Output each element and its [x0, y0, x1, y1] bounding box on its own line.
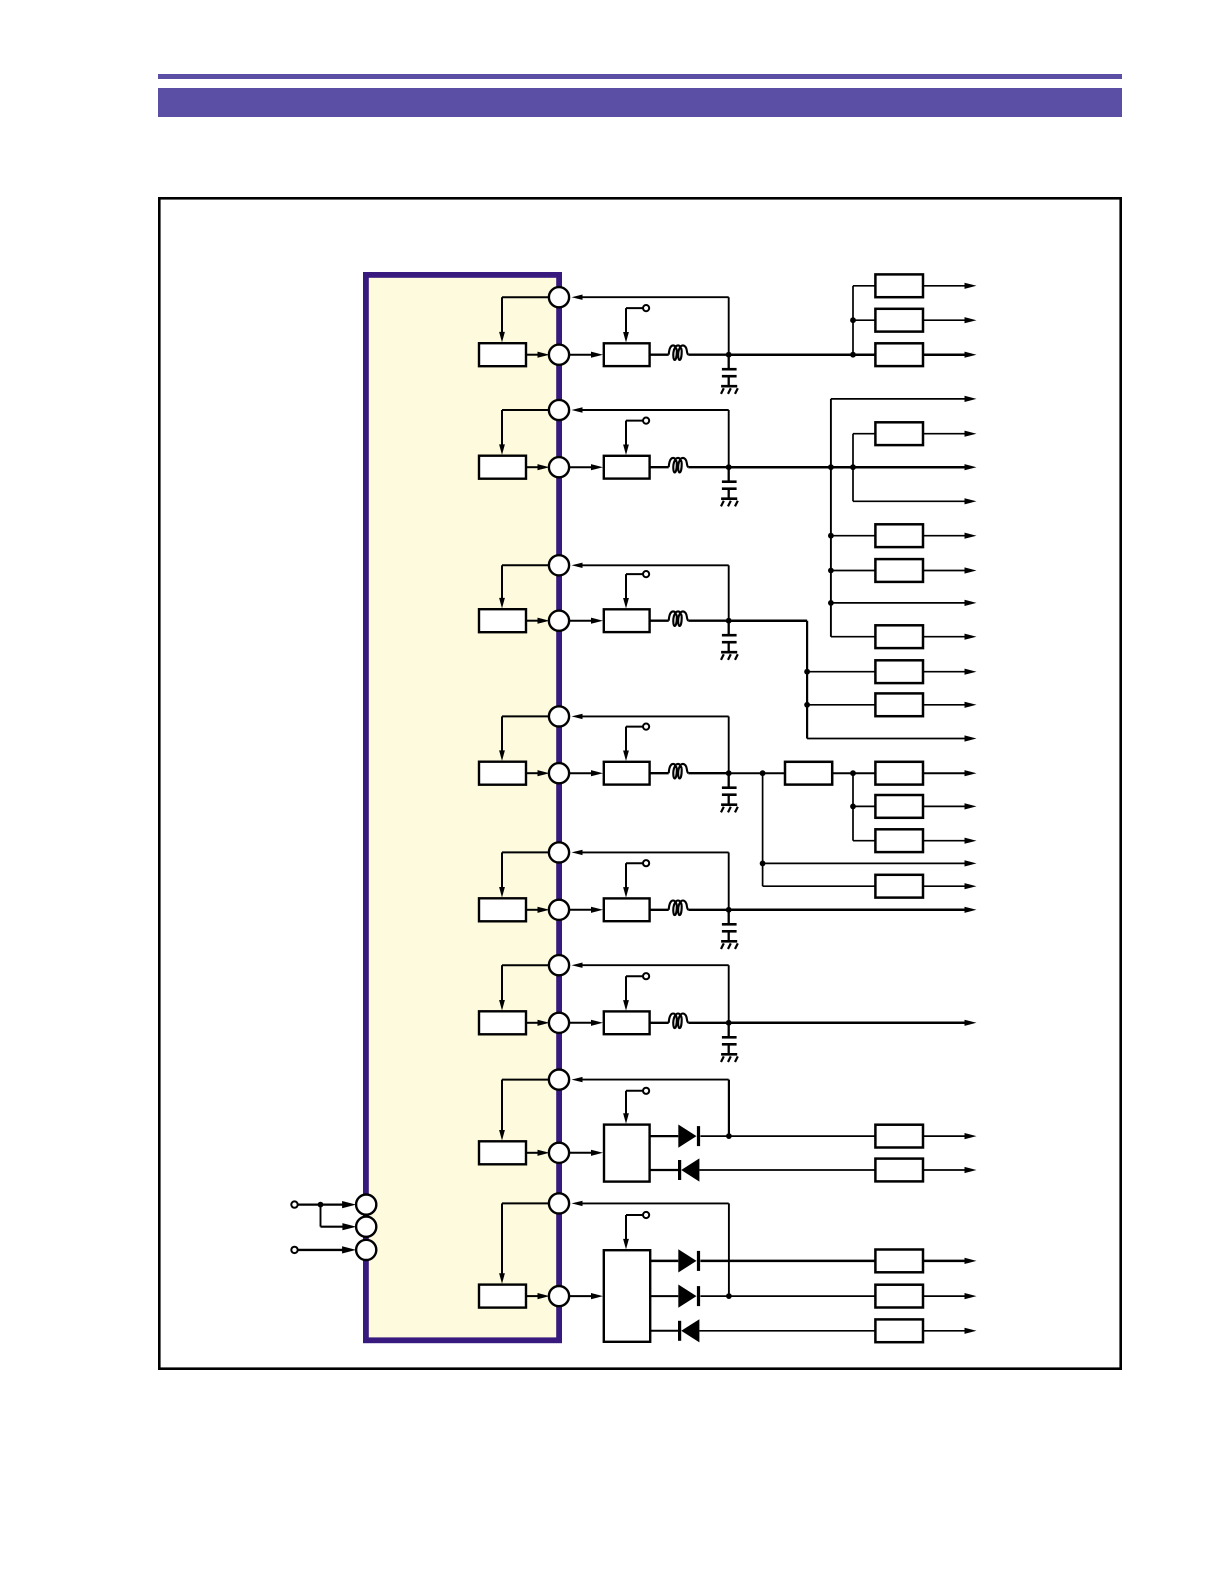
- wire: ch4 output rail: [729, 772, 785, 774]
- wire: ch2 output pin to external block: [570, 466, 593, 468]
- wire: ch1 load branch A: [853, 285, 875, 287]
- wire: ch2 load branch G: [831, 602, 965, 604]
- wire: ch1 inductor to output node: [688, 354, 728, 356]
- wire: ch1 internal feedback routing: [502, 296, 550, 298]
- output arrow: ch2 load G: [965, 600, 977, 606]
- output arrow: ch2 load F: [923, 570, 965, 572]
- wire: ch7 diode branch A: [650, 1135, 679, 1137]
- driver block Q5: [604, 898, 650, 921]
- pin: ch8 feedback input: [549, 1193, 569, 1213]
- inductor L6: [669, 1013, 689, 1028]
- ground: [728, 642, 730, 652]
- pin: ch8 regulator output: [549, 1286, 569, 1306]
- wire: ch6 block output to pin: [526, 1022, 539, 1024]
- output arrow: ch1 load C: [923, 353, 965, 356]
- wire: ch3 block output to pin: [526, 620, 539, 622]
- output arrow: ch2 load H: [923, 636, 965, 638]
- wire: ch1 output pin to external block: [570, 354, 593, 356]
- wire: ch4 branch riser: [852, 773, 854, 841]
- pin: control input B: [356, 1217, 376, 1237]
- node: ch2 branch junction: [850, 464, 856, 470]
- node: ch4 output junction: [726, 770, 732, 776]
- output arrow: ch1 load B: [923, 319, 965, 321]
- load resistor block K8b: [875, 1285, 923, 1308]
- wire: ch7 output pin to external block: [570, 1152, 593, 1154]
- wire: ch2 load branch H (bus end): [831, 636, 876, 638]
- wire: ch4 driver to inductor: [650, 772, 669, 774]
- pin: ch3 feedback input: [549, 555, 569, 575]
- wire: input 2 line: [298, 1249, 345, 1251]
- load resistor block K1a: [875, 274, 923, 297]
- pin: ch3 regulator output: [549, 611, 569, 631]
- wire: input split to pin B: [320, 1205, 322, 1227]
- diode D7b: [678, 1160, 681, 1180]
- pin: control input C: [356, 1240, 376, 1260]
- internal regulator block U1D: [479, 762, 526, 785]
- output arrow: ch3 load A: [923, 671, 965, 673]
- wire: ch5 driver to inductor: [650, 909, 669, 911]
- internal regulator block U1F: [479, 1011, 526, 1034]
- node: ch4 tap junction: [760, 770, 766, 776]
- capacitor C6: [728, 1023, 730, 1038]
- capacitor C3: [728, 621, 730, 636]
- capacitor C1: [728, 355, 730, 370]
- load resistor block K2e: [875, 524, 923, 547]
- series resistor block R4: [785, 762, 832, 785]
- wire: ch8 after diode A: [700, 1260, 875, 1263]
- input terminal J1: [291, 1201, 297, 1207]
- pin: ch4 feedback input: [549, 706, 569, 726]
- wire: ch3 load branch A: [807, 671, 875, 673]
- wire: ch1 driver to inductor: [650, 354, 669, 356]
- load resistor block K2f: [875, 559, 923, 582]
- wire: ch8 block output to pin: [526, 1295, 539, 1297]
- pin: ch1 regulator output: [549, 345, 569, 365]
- capacitor C5: [728, 910, 730, 925]
- wire: ch5 block output to pin: [526, 909, 539, 911]
- ground: [728, 489, 730, 499]
- node: ch2 bus tap G: [828, 600, 834, 606]
- pin: ch2 regulator output: [549, 457, 569, 477]
- wire: ch2 load branch F: [831, 570, 876, 572]
- capacitor C4: [728, 773, 730, 788]
- node: ch7 feedback junction: [726, 1133, 732, 1139]
- IC block U1 (shaded): [366, 275, 559, 1340]
- diode D8a: [678, 1249, 696, 1272]
- switch: ch4 enable control SW4: [625, 727, 627, 753]
- wire: ch2 load branch B: [853, 433, 875, 435]
- node: ch6 output junction: [726, 1020, 732, 1026]
- wire: ch5 feedback vertical: [728, 852, 730, 909]
- wire: ch3 inductor to output node: [688, 620, 728, 622]
- load resistor block K4e: [875, 875, 923, 898]
- pin: control input A: [356, 1195, 376, 1215]
- inductor L5: [669, 900, 689, 915]
- wire: ch2 output rail: [729, 466, 965, 469]
- wire: ch1 output rail to load branches: [729, 353, 876, 356]
- node: ch3 bus tap B: [804, 702, 810, 708]
- output arrow: ch2 load D: [965, 498, 977, 504]
- wire: ch2 load branch E: [831, 535, 876, 537]
- node: ch2 bus tap F: [828, 568, 834, 574]
- output arrow: ch7 load B: [923, 1169, 965, 1171]
- diode D8b: [678, 1285, 696, 1308]
- wire: ch4 after series block: [832, 772, 875, 774]
- wire: ch4 output pin to external block: [570, 772, 593, 774]
- node: ch3 bus tap A: [804, 669, 810, 675]
- output arrow: ch3 load C: [965, 735, 977, 741]
- wire: ch1 block output to pin: [526, 354, 539, 356]
- switch: ch5 enable control SW5: [625, 863, 627, 889]
- output arrow: ch2 load C (main): [965, 464, 977, 470]
- wire: ch2 distribution bus: [830, 399, 832, 637]
- node: ch4 branch tap: [850, 804, 856, 810]
- wire: ch4 inductor to output node: [688, 772, 728, 774]
- node: ch1 output junction: [726, 352, 732, 358]
- inductor L2: [669, 458, 689, 473]
- arrow: into pin B: [342, 1223, 356, 1230]
- wire: ch5 internal feedback routing: [502, 851, 550, 853]
- node: ch1 branch tap: [850, 317, 856, 323]
- wire: ch7 feedback vertical: [728, 1080, 730, 1137]
- wire: ch2 inductor to output node: [688, 466, 728, 468]
- switch: ch3 enable control SW3: [625, 574, 627, 600]
- output arrow: ch7 load A: [923, 1135, 965, 1137]
- wire: ch1 load branch B: [853, 319, 875, 321]
- ground: [728, 1044, 730, 1054]
- driver block Q2: [604, 456, 650, 479]
- output arrow: ch8 load B: [923, 1295, 965, 1297]
- wire: ch7 block output to pin: [526, 1152, 539, 1154]
- wire: ch2 feedback sense line: [572, 407, 583, 412]
- switch: ch2 enable control SW2: [625, 421, 627, 447]
- wire: ch3 internal feedback routing: [502, 564, 550, 566]
- wire: ch2 block output to pin: [526, 466, 539, 468]
- load resistor block K4c: [875, 829, 923, 852]
- wire: ch5 feedback sense line: [572, 850, 583, 855]
- ground: [728, 795, 730, 805]
- inductor L1: [669, 345, 689, 360]
- driver block Q6: [604, 1011, 650, 1034]
- wire: ch8 feedback vertical: [728, 1203, 730, 1296]
- node: input split junction: [318, 1202, 324, 1208]
- wire: ch3 output rail: [729, 619, 807, 622]
- wire: ch7 diode branch B: [650, 1169, 678, 1171]
- inductor L3: [669, 611, 689, 626]
- wire: ch8 diode branch C: [650, 1330, 678, 1332]
- wire: ch4 feedback sense line: [572, 714, 583, 719]
- load resistor block K8c: [875, 1319, 923, 1342]
- pin: ch7 feedback input: [549, 1070, 569, 1090]
- load resistor block K7a: [875, 1125, 923, 1148]
- output arrow: ch2 load B: [923, 433, 965, 435]
- diode D8c: [678, 1321, 681, 1341]
- wire: ch4 left riser: [762, 773, 764, 886]
- wire: ch3 feedback sense line: [572, 563, 583, 568]
- driver block Q4: [604, 762, 650, 785]
- node: ch8 feedback junction: [726, 1293, 732, 1299]
- wire: ch7 after diode B: [699, 1169, 875, 1171]
- wire: ch8 internal feedback routing: [502, 1202, 550, 1204]
- output arrow: ch4 load E: [923, 885, 965, 887]
- wire: ch5 output rail: [729, 909, 965, 912]
- wire: ch4 internal feedback routing: [502, 715, 550, 717]
- output arrow: ch4 load A: [923, 772, 965, 774]
- wire: ch4 block output to pin: [526, 772, 539, 774]
- output arrow: ch8 load A: [923, 1260, 965, 1263]
- pin: ch2 feedback input: [549, 400, 569, 420]
- internal regulator block U1A: [479, 343, 526, 366]
- node: ch4 left tap: [760, 861, 766, 867]
- wire: ch2 feedback vertical: [728, 410, 730, 467]
- node: ch2 output junction: [726, 464, 732, 470]
- wire: ch1 feedback sense line: [572, 295, 583, 300]
- wire: ch6 feedback vertical: [728, 965, 730, 1023]
- wire: ch2 driver to inductor: [650, 466, 669, 468]
- driver block Q8: [604, 1250, 650, 1342]
- wire: ch6 output pin to external block: [570, 1022, 593, 1024]
- output arrow: ch3 load B: [923, 704, 965, 706]
- wire: ch3 load branch C (bus end): [807, 738, 965, 740]
- output arrow: ch2 load E: [923, 535, 965, 537]
- inductor L4: [669, 764, 689, 779]
- node: ch1 branch junction: [850, 352, 856, 358]
- wire: ch2 branch riser: [852, 434, 854, 502]
- wire: ch6 inductor to output node: [688, 1022, 728, 1024]
- output arrow: ch4 load D: [965, 860, 977, 866]
- wire: ch8 feedback sense line: [572, 1201, 583, 1206]
- arrow: into pin C: [342, 1246, 356, 1253]
- wire: ch5 inductor to output node: [688, 909, 728, 911]
- pin: ch7 regulator output: [549, 1143, 569, 1163]
- wire: ch3 distribution bus: [806, 621, 808, 739]
- pin: ch5 feedback input: [549, 842, 569, 862]
- switch: ch7 enable control SW7: [625, 1091, 627, 1115]
- wire: ch4 load branch C: [853, 840, 875, 842]
- internal regulator block U1E: [479, 898, 526, 921]
- wire: ch2 internal feedback routing: [502, 409, 550, 411]
- wire: ch8 diode branch B: [650, 1295, 678, 1297]
- output arrow: ch6: [965, 1020, 977, 1026]
- ground: [728, 931, 730, 941]
- diode D7a: [678, 1125, 696, 1148]
- wire: ch6 output rail: [729, 1022, 965, 1025]
- wire: ch6 feedback sense line: [572, 963, 583, 968]
- wire: ch1 feedback vertical: [728, 297, 730, 355]
- pin: ch4 regulator output: [549, 763, 569, 783]
- driver block Q3: [604, 609, 650, 632]
- input terminal J2: [291, 1247, 297, 1253]
- load resistor block K1b: [875, 309, 923, 332]
- load resistor block K4b: [875, 795, 923, 818]
- wire: ch1 branch riser: [852, 286, 854, 355]
- driver block Q7: [604, 1125, 650, 1182]
- internal regulator block U1B: [479, 456, 526, 479]
- output arrow: ch5: [965, 907, 977, 913]
- arrow: into pin A: [342, 1201, 356, 1208]
- pin: ch5 regulator output: [549, 900, 569, 920]
- wire: ch3 driver to inductor: [650, 620, 669, 622]
- load resistor block K8a: [875, 1250, 923, 1273]
- node: ch2 bus tap E: [828, 533, 834, 539]
- load resistor block K1c: [875, 343, 923, 366]
- load resistor block K2h: [875, 625, 923, 648]
- load resistor block K3b: [875, 693, 923, 716]
- node: ch5 output junction: [726, 907, 732, 913]
- pin: ch6 regulator output: [549, 1013, 569, 1033]
- figure frame: [159, 198, 1120, 1368]
- wire: ch6 internal feedback routing: [502, 964, 550, 966]
- internal regulator block U1H: [479, 1285, 526, 1308]
- output arrow: ch1 load A: [923, 285, 965, 287]
- node: ch4 branch junction: [850, 770, 856, 776]
- output arrow: ch2 load A: [965, 396, 977, 402]
- output arrow: ch4 load B: [923, 805, 965, 807]
- header purple title bar: [158, 88, 1122, 117]
- wire: ch2 load branch A (top): [831, 398, 965, 400]
- pin: ch1 feedback input: [549, 287, 569, 307]
- capacitor C2: [728, 467, 730, 482]
- wire: ch8 after diode C: [699, 1330, 875, 1332]
- ground: [728, 376, 730, 386]
- wire: ch3 feedback vertical: [728, 565, 730, 620]
- wire: ch8 diode branch A: [650, 1260, 678, 1263]
- switch: ch1 enable control SW1: [625, 308, 627, 334]
- wire: ch3 load branch B: [807, 704, 875, 706]
- wire: input 1 line: [298, 1203, 345, 1205]
- wire: ch7 internal feedback routing: [502, 1079, 550, 1081]
- wire: ch7 feedback sense line: [572, 1077, 583, 1082]
- wire: ch2 load branch D: [853, 500, 965, 502]
- load resistor block K3a: [875, 660, 923, 683]
- load resistor block K7b: [875, 1159, 923, 1182]
- load resistor block K2b: [875, 422, 923, 445]
- wire: ch8 after diode B: [700, 1295, 875, 1297]
- node: ch2 bus junction: [828, 464, 834, 470]
- wire: ch6 driver to inductor: [650, 1022, 669, 1024]
- pin: ch6 feedback input: [549, 955, 569, 975]
- internal regulator block U1C: [479, 609, 526, 632]
- output arrow: ch8 load C: [923, 1330, 965, 1332]
- wire: ch5 output pin to external block: [570, 909, 593, 911]
- wire: ch8 output pin to external block: [570, 1295, 593, 1297]
- node: ch3 output junction: [726, 618, 732, 624]
- switch: ch6 enable control SW6: [625, 976, 627, 1002]
- wire: ch4 load branch D: [763, 862, 965, 864]
- wire: ch3 output pin to external block: [570, 620, 593, 622]
- internal regulator block U1G: [479, 1141, 526, 1164]
- header thin purple rule: [158, 74, 1122, 79]
- wire: ch4 load branch E: [763, 885, 876, 887]
- switch: ch8 enable control SW8: [625, 1215, 627, 1241]
- output arrow: ch4 load C: [923, 840, 965, 842]
- wire: ch7 after diode A: [700, 1135, 875, 1137]
- driver block Q1: [604, 343, 650, 366]
- load resistor block K4a: [875, 762, 923, 785]
- wire: ch4 load branch B: [853, 805, 875, 807]
- wire: ch4 feedback vertical: [728, 716, 730, 773]
